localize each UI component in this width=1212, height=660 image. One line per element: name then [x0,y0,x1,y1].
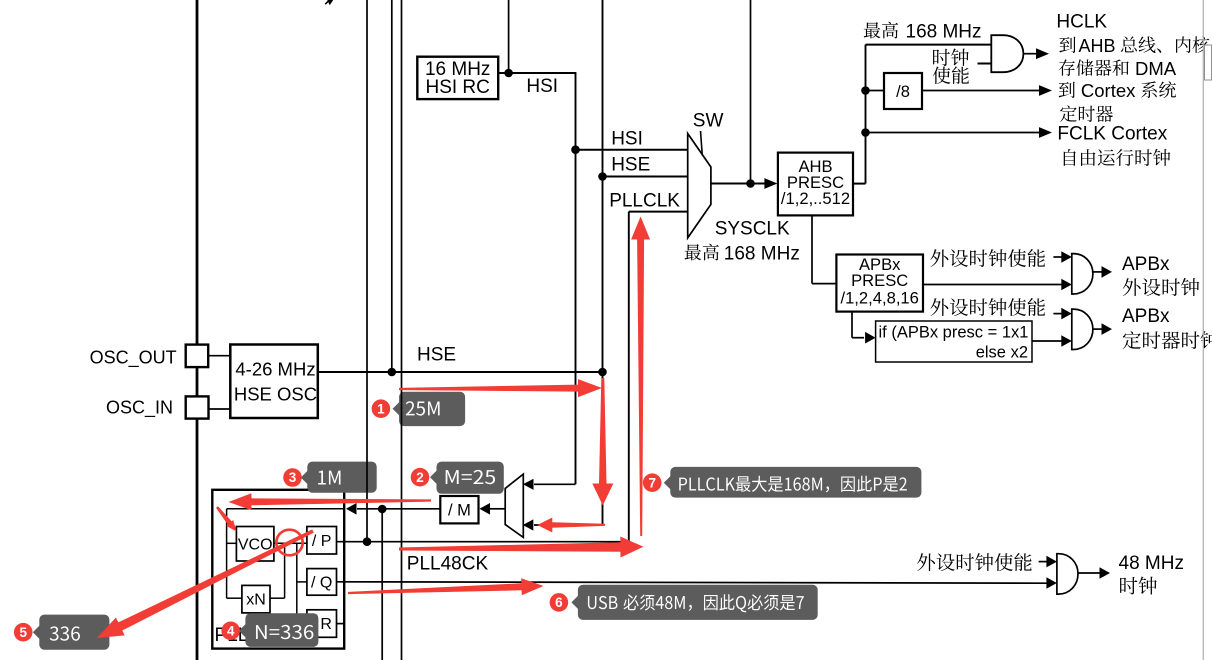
svg-text:4-26 MHz: 4-26 MHz [235,359,315,380]
svg-text:5: 5 [19,625,27,640]
svg-text:6: 6 [555,595,563,610]
svg-text:48 MHz: 48 MHz [1119,553,1184,574]
svg-text:HSE: HSE [611,155,650,176]
svg-text:HSE OSC: HSE OSC [234,383,317,404]
svg-text:PLL48CK: PLL48CK [407,554,489,575]
svg-text:APBx: APBx [1122,306,1170,327]
svg-text:1: 1 [377,401,385,416]
svg-text:2: 2 [416,470,424,485]
svg-text:Cortex: Cortex [1081,80,1136,101]
svg-text:AHB: AHB [1079,36,1116,56]
svg-text:PLLCLK: PLLCLK [609,191,680,212]
svg-text:/ M: / M [448,502,471,520]
svg-text:FCLK Cortex: FCLK Cortex [1057,124,1167,145]
svg-text:/1,2,..512: /1,2,..512 [781,189,850,208]
svg-text:OSC_OUT: OSC_OUT [90,348,177,369]
svg-text:HSI: HSI [611,129,643,150]
svg-text:HCLK: HCLK [1056,12,1107,33]
svg-text:4: 4 [227,624,235,639]
svg-text:xN: xN [246,592,266,609]
svg-text:168 MHz: 168 MHz [906,22,982,43]
svg-text:HSE: HSE [417,345,456,366]
svg-text:DMA: DMA [1135,58,1177,79]
svg-text:/ Q: / Q [311,575,332,592]
svg-text:SW: SW [693,111,724,132]
svg-text:APBx: APBx [1122,254,1170,275]
svg-text:OSC_IN: OSC_IN [106,398,173,419]
svg-text:if (APBx presc = 1x1: if (APBx presc = 1x1 [879,324,1029,342]
svg-text:SYSCLK: SYSCLK [715,219,790,240]
svg-text:/8: /8 [896,83,910,101]
svg-text:/ P: / P [312,533,332,550]
svg-text:else x2: else x2 [976,344,1028,362]
svg-text:3: 3 [289,470,297,485]
svg-text:HSI: HSI [526,76,558,97]
svg-text:/1,2,4,8,16: /1,2,4,8,16 [840,289,918,308]
svg-text:168 MHz: 168 MHz [724,243,800,264]
svg-text:7: 7 [648,475,656,490]
svg-text:HSI RC: HSI RC [425,77,489,98]
svg-text:PRESC: PRESC [851,271,908,290]
